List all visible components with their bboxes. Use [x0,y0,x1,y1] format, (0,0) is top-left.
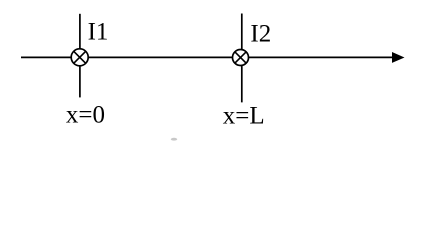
svg-text:I2: I2 [250,20,271,47]
wire vertical through I1 [79,14,81,98]
wire x-axis horizontal line [21,56,393,58]
svg-text:x=0: x=0 [66,101,105,128]
svg-text:x=L: x=L [223,103,265,130]
x-axis arrowhead [392,52,405,63]
svg-text:I1: I1 [88,19,109,46]
stray faint mark (cropped text artifact) [171,138,177,141]
current source I2 (current into page symbol) [233,50,249,66]
wire vertical through I2 [241,14,243,103]
current source I1 (current into page symbol) [71,49,88,66]
